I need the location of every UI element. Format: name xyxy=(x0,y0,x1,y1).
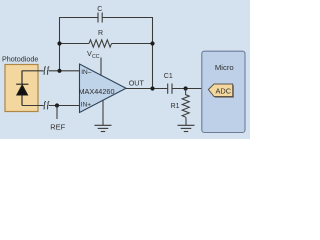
resistor R xyxy=(89,40,112,47)
svg-text:R: R xyxy=(98,30,103,37)
junction node at R right xyxy=(150,41,154,45)
junction node R1 top xyxy=(184,86,188,90)
junction node REF xyxy=(55,103,59,107)
svg-text:OUT: OUT xyxy=(129,78,145,87)
break squiggle top xyxy=(44,67,50,75)
wire: feedback top loop (C branch) xyxy=(60,18,153,89)
svg-text:C1: C1 xyxy=(164,73,173,80)
photodiode box xyxy=(5,65,38,112)
svg-text:REF: REF xyxy=(50,123,65,132)
capacitor C xyxy=(98,13,102,23)
svg-text:MAX44260: MAX44260 xyxy=(78,87,114,96)
ADC input tag xyxy=(208,84,232,97)
ground (op-amp) xyxy=(95,125,112,131)
wire: photodiode cathode to IN- xyxy=(22,70,80,72)
junction node at R left xyxy=(57,41,61,45)
svg-text:ADC: ADC xyxy=(215,86,231,95)
svg-text:CC: CC xyxy=(92,54,100,60)
wire: C1 to ADC xyxy=(172,88,209,90)
capacitor C1 xyxy=(168,84,172,94)
svg-text:Photodiode: Photodiode xyxy=(2,54,38,63)
Micro block xyxy=(202,51,245,132)
junction node OUT/feedback xyxy=(150,86,154,90)
op-amp U1 MAX44260 xyxy=(80,64,127,113)
svg-text:R1: R1 xyxy=(171,103,180,110)
svg-text:Micro: Micro xyxy=(215,63,234,72)
wire: R branch xyxy=(60,43,153,45)
ADC input tag shadow xyxy=(210,85,234,98)
svg-text:IN+: IN+ xyxy=(81,101,92,108)
junction node IN- xyxy=(57,69,61,73)
svg-text:C: C xyxy=(97,6,102,13)
wire: photodiode anode to IN+ xyxy=(22,105,80,107)
wire: VCC stub xyxy=(100,58,102,76)
background panel xyxy=(0,0,250,139)
photodiode D1 xyxy=(16,71,28,106)
wire: op-amp gnd stem xyxy=(102,100,104,125)
break squiggle bottom xyxy=(44,101,50,109)
wire: REF stub xyxy=(56,106,58,120)
resistor R1 xyxy=(182,89,189,126)
svg-text:IN–: IN– xyxy=(81,69,92,76)
ground (R1) xyxy=(178,125,195,131)
wire: OUT net xyxy=(126,88,167,90)
